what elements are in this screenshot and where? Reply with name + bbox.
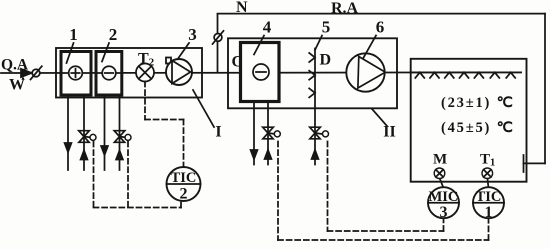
N return duct vertical [217,14,219,73]
spray pipe 5 [314,49,316,165]
controller TIC1 circle [473,187,504,218]
label 4 leader [254,36,264,55]
damper valve at fresh-air inlet [32,69,40,77]
node Q.A inlet arrow [21,69,32,77]
damper valve on return duct [214,34,222,42]
svg-text:(23±1) ℃: (23±1) ℃ [441,95,515,111]
label II leader [372,109,387,126]
spray nozzle top [309,53,315,62]
svg-text:TIC: TIC [476,189,502,205]
valve V4 on spray pipe [310,127,321,139]
valve V1 actuator circle [90,134,96,140]
cooler 2 circle with minus [102,66,116,80]
diffuser 3 [445,72,454,78]
svg-text:1: 1 [69,25,78,44]
label 6 leader [363,36,376,59]
pipe under cooler 4 supply [253,102,255,165]
R.A duct right vertical [544,14,546,164]
R.A duct entry into room [524,162,546,164]
svg-text:1: 1 [485,204,493,221]
svg-text:(45±5) ℃: (45±5) ℃ [441,120,515,136]
room box [411,59,527,182]
pipe under cooler 2 supply [104,95,106,170]
label 3 leader [178,43,189,59]
pipe under cooler 2 return [119,95,121,170]
dashed signal T2 to TIC2 [145,82,184,167]
arrow up on pipe [81,151,88,160]
pipe under heater 1 return [83,95,85,170]
N top duct line [218,13,546,15]
controller TIC2 circle [167,167,201,201]
pipe under cooler 4 return [267,102,269,165]
valve V2 under cooler [114,131,125,143]
label I leader [193,90,214,127]
fan 3 motor mark [166,58,171,64]
svg-text:R.A: R.A [331,0,359,17]
arrow down on pipe [65,143,72,152]
svg-text:6: 6 [376,18,385,37]
wire through heater 1 [62,72,90,74]
label 2 leader [102,43,109,62]
diffuser 2 [430,72,439,78]
svg-text:3: 3 [188,25,197,44]
svg-text:3: 3 [440,204,448,221]
box I enclosure [56,48,202,98]
svg-text:Q.A: Q.A [1,57,29,74]
svg-text:5: 5 [322,18,331,37]
arrow up on pipe [116,151,123,160]
fan 3 impeller triangle [172,61,191,84]
label 5 leader [315,36,322,51]
sensor M circle [434,168,445,179]
sensor T1 circle [482,168,493,179]
pipe under heater 1 supply [67,95,69,170]
controller MIC3 circle [428,187,459,218]
arrow down on pipe [101,146,108,155]
arrow down on pipe [251,150,258,159]
heater 1 circle with plus [69,66,83,80]
svg-text:II: II [383,124,395,141]
dashed signal valve V4 to MIC3 [328,142,444,232]
svg-text:D: D [320,52,332,69]
valve V2 actuator circle [125,134,131,140]
wire through cooler 2 [97,72,121,74]
node W dot [22,77,24,79]
valve V1 under heater [79,131,90,143]
diffuser 7 [506,72,515,78]
diffuser 6 [490,72,499,78]
R.A intake cap [523,155,525,172]
svg-text:N: N [236,0,248,16]
wire main duct line [1,71,521,74]
fan 6 impeller triangle [358,57,385,89]
svg-text:2: 2 [109,25,118,44]
valve V3 under cooler 4 [263,127,274,139]
label 1 leader [67,43,74,63]
valve V3 actuator circle [274,131,280,137]
diffuser 4 [460,72,469,78]
cooler 2 box [96,52,122,96]
diffuser 1 [415,72,424,78]
spray nozzle bottom [309,88,315,97]
diffuser 5 [474,72,483,78]
svg-text:I: I [215,124,221,141]
cooler 4 box [241,43,280,102]
svg-text:TIC: TIC [171,170,197,186]
dashed signal valve V3 to TIC1 [278,142,489,241]
sensor T2 circle [136,64,154,82]
wire M sensor to MIC3 [440,179,443,188]
svg-text:T1: T1 [480,152,495,169]
svg-text:T2: T2 [138,51,155,69]
dashed signal valves to TIC2 [94,142,182,208]
fan 6 circle [346,53,384,91]
box II enclosure [228,38,397,108]
heater 1 box [61,52,91,96]
wire T1 sensor to TIC1 [487,179,490,188]
cooler 4 circle with minus [253,64,269,80]
svg-text:4: 4 [263,18,272,37]
spray nozzle middle [309,71,315,80]
valve V4 actuator circle [323,131,329,137]
diffuser line in room [411,71,521,73]
fan 3 circle [166,59,192,85]
arrow up on pipe [265,150,272,159]
svg-text:MIC: MIC [429,189,459,205]
svg-text:M: M [433,152,447,168]
arrow up on spray pipe [312,150,319,159]
svg-text:2: 2 [180,186,188,203]
